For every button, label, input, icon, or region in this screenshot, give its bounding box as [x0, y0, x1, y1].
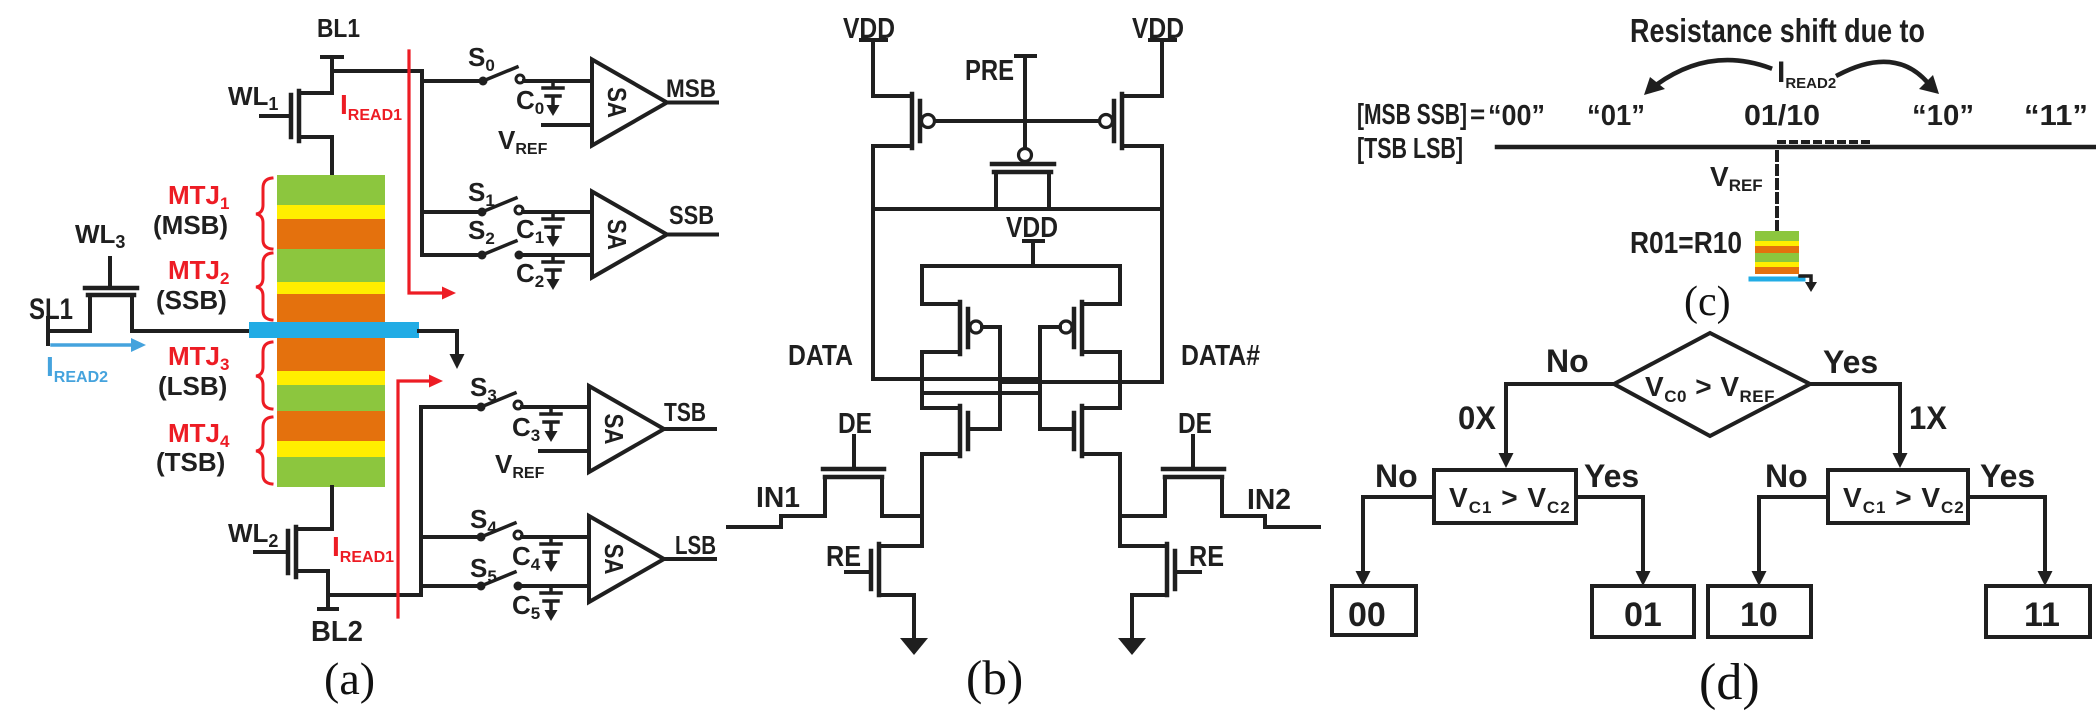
resistance axis line [1497, 145, 2094, 150]
switch S5 [421, 572, 589, 591]
current path IREAD1 bottom (red line) [398, 381, 432, 617]
wire P2 drain to rail [1160, 146, 1164, 209]
blue middle electrode bar [249, 322, 419, 338]
brace MTJ4 [256, 417, 272, 484]
svg-text:MSB: MSB [666, 75, 716, 103]
switch S4 [421, 523, 589, 542]
wire MSB output [667, 101, 717, 105]
dashed VREF line [1775, 152, 1779, 230]
transistor WL3 [85, 258, 137, 331]
capacitor C0 [543, 81, 563, 116]
svg-text:01/10: 01/10 [1744, 100, 1820, 132]
transistor RE right [1122, 544, 1200, 638]
switch S1 [422, 198, 592, 217]
svg-text:11: 11 [2024, 596, 2060, 634]
wire P1 drain to rail [871, 146, 875, 209]
dotted segment on axis [1779, 140, 1868, 144]
result box 10 [1708, 586, 1811, 637]
transistor N1 (latch NMOS left) [922, 406, 1000, 456]
svg-text:(c): (c) [1684, 279, 1731, 325]
svg-text:TSB: TSB [664, 397, 706, 427]
svg-text:R01=R10: R01=R10 [1630, 225, 1742, 260]
capacitor C1 [543, 212, 563, 247]
curved arrow left [1656, 60, 1770, 85]
node BL1 terminal [322, 57, 342, 71]
ground left [900, 638, 928, 655]
wire BL2 row [328, 593, 421, 597]
svg-text:(a): (a) [324, 653, 375, 704]
switch S3 [421, 393, 589, 412]
wire from electrode to down arrow [419, 331, 457, 358]
wire left box No branch [1363, 497, 1434, 574]
svg-text:DE: DE [1178, 408, 1212, 440]
svg-text:(TSB): (TSB) [156, 447, 225, 477]
wire DATA# node horizontal [1000, 380, 1162, 384]
transistor RE left [846, 544, 922, 638]
transistor P1 (left precharge PMOS) [873, 94, 935, 148]
svg-text:DATA#: DATA# [1181, 340, 1260, 372]
svg-text:“01”: “01” [1587, 100, 1645, 132]
wire cross-couple horizontal [922, 391, 1040, 395]
wire gate bus P1-P2 [935, 119, 1099, 123]
wire LSB output [664, 557, 715, 561]
svg-text:SSB: SSB [669, 200, 714, 230]
wire VREF to SA1 [543, 123, 592, 127]
svg-text:VDD: VDD [1132, 13, 1184, 45]
node PRE terminal [1016, 56, 1035, 148]
svg-text:Yes: Yes [1823, 344, 1878, 380]
svg-text:PRE: PRE [965, 55, 1014, 87]
wire DATA# rail upper [1118, 352, 1122, 408]
svg-text:(MSB): (MSB) [153, 210, 228, 240]
wire BL1 to trunk [332, 69, 422, 73]
node VDD middle terminal [1024, 241, 1043, 266]
svg-text:SA: SA [599, 414, 629, 445]
op-amp SA1 [592, 60, 667, 146]
transistor WL1 [261, 57, 332, 175]
transistor N2 (latch NMOS right) [1040, 406, 1120, 456]
wire branch S0 row [422, 79, 483, 83]
capacitor C4 [541, 537, 561, 572]
current arrow IREAD2 (blue) [52, 343, 134, 347]
svg-text:Yes: Yes [1980, 458, 2035, 494]
svg-text:IN2: IN2 [1247, 484, 1291, 516]
transistor P5 (equalization PMOS) [992, 149, 1054, 210]
wire latch source hat [922, 266, 1120, 304]
wire cross-couple vertical right [1038, 327, 1042, 429]
brace MTJ1 [256, 178, 272, 249]
svg-text:“11”: “11” [2024, 100, 2088, 132]
svg-text:Resistance shift due to: Resistance shift due to [1630, 12, 1925, 49]
wire VREF to SA3 [540, 449, 589, 453]
result box 01 [1592, 586, 1694, 637]
transistor DE right [1122, 436, 1319, 527]
svg-text:00: 00 [1348, 596, 1386, 634]
transistor P4 (latch PMOS right) [1040, 302, 1120, 354]
transistor DE left [728, 436, 922, 527]
wire diamond to left box [1506, 384, 1614, 456]
capacitor C3 [541, 407, 561, 442]
svg-text:[TSB LSB]: [TSB LSB] [1357, 133, 1463, 165]
svg-text:[MSB SSB]: [MSB SSB] [1357, 99, 1467, 131]
wire SL1 row [48, 329, 251, 333]
svg-text:10: 10 [1740, 596, 1778, 634]
svg-text:VDD: VDD [843, 13, 895, 45]
switch S2 [422, 241, 592, 260]
brace MTJ3 [256, 342, 272, 409]
wire TSB output [664, 427, 715, 431]
svg-text:Yes: Yes [1584, 458, 1639, 494]
svg-text:(d): (d) [1699, 654, 1760, 711]
node SL1 terminal [46, 318, 50, 344]
svg-text:(SSB): (SSB) [156, 285, 227, 315]
svg-text:BL2: BL2 [311, 616, 363, 648]
svg-text:(b): (b) [966, 650, 1023, 705]
wire right box Yes branch [1968, 497, 2045, 574]
wire left source rail [920, 454, 924, 546]
power VDD left terminal [861, 40, 886, 96]
svg-text:No: No [1546, 343, 1589, 379]
result box 11 [1986, 586, 2090, 637]
decision box left VC1 > VC2 [1434, 470, 1576, 523]
capacitor C2 [543, 255, 563, 290]
svg-text:“00”: “00” [1488, 100, 1545, 132]
svg-text:No: No [1375, 458, 1418, 494]
svg-text:BL1: BL1 [317, 13, 360, 43]
svg-text:=: = [1470, 99, 1485, 129]
svg-text:RE: RE [1189, 541, 1224, 573]
curved arrow right [1838, 62, 1928, 83]
svg-text:SA: SA [599, 544, 629, 575]
wire right box No branch [1759, 497, 1828, 574]
svg-text:RE: RE [826, 541, 861, 573]
svg-text:IN1: IN1 [756, 482, 800, 514]
svg-text:(LSB): (LSB) [158, 371, 227, 401]
ground right [1118, 638, 1146, 655]
svg-text:SA: SA [602, 219, 632, 250]
arrow down at electrode output [450, 354, 465, 369]
hook arrow [1800, 276, 1811, 285]
wire trunk vertical upper [420, 71, 424, 255]
wire precharge rail [873, 207, 1162, 211]
result box 00 [1332, 586, 1416, 635]
svg-text:DE: DE [838, 408, 872, 440]
wire right outer rail [1160, 209, 1164, 382]
decision box right VC1 > VC2 [1828, 470, 1968, 523]
svg-text:“10”: “10” [1912, 100, 1974, 132]
wire cross-couple vertical left [998, 327, 1002, 429]
decision diamond VC0 > VREF [1614, 333, 1810, 436]
switch S0 [479, 67, 593, 86]
svg-text:0X: 0X [1458, 400, 1497, 436]
transistor WL2 [255, 487, 332, 595]
transistor P3 (latch PMOS left) [922, 302, 1000, 354]
capacitor C5 [541, 586, 561, 621]
wire DATA rail upper [920, 352, 924, 408]
op-amp SA4 [589, 516, 664, 602]
wire DATA node horizontal [873, 377, 1040, 381]
op-amp SA3 [589, 386, 664, 472]
svg-text:SA: SA [602, 87, 632, 118]
svg-text:01: 01 [1624, 596, 1662, 634]
MTJ stack layers [277, 175, 385, 487]
svg-text:SL1: SL1 [29, 293, 73, 326]
wire trunk vertical lower [419, 407, 423, 595]
svg-text:1X: 1X [1909, 400, 1948, 436]
current path IREAD1 top (red line) [409, 51, 445, 293]
power VDD right terminal [1150, 40, 1175, 96]
svg-text:LSB: LSB [675, 530, 716, 560]
svg-text:No: No [1765, 458, 1808, 494]
mini MTJ stack [1755, 231, 1799, 274]
svg-text:DATA: DATA [788, 340, 853, 372]
wire left box Yes branch [1576, 497, 1643, 574]
brace MTJ2 [256, 253, 272, 320]
wire left outer rail [871, 209, 875, 379]
op-amp SA2 [592, 192, 667, 278]
wire SSB output [667, 233, 717, 237]
wire diamond to right box [1810, 384, 1900, 456]
mini blue electrode [1751, 277, 1803, 282]
transistor P2 (right precharge PMOS) [1100, 94, 1163, 148]
node BL2 terminal [319, 595, 337, 609]
wire right source rail [1118, 454, 1122, 546]
